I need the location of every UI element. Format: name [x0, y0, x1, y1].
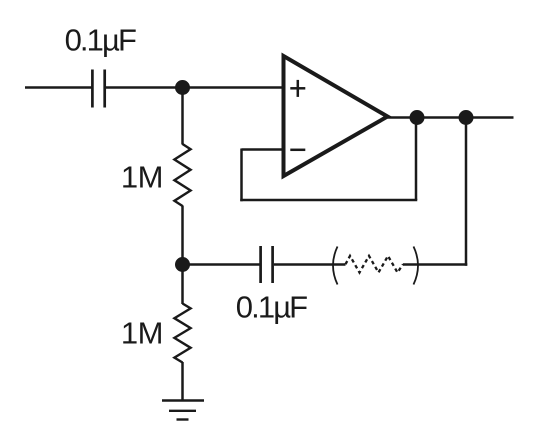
junction node D (output / branch tap): [459, 110, 474, 125]
op-amp U1 plus (noninverting) marking: [290, 80, 305, 97]
junction node A (input node): [175, 80, 190, 95]
op-amp U1 triangle: [284, 56, 388, 176]
wire op-amp inverting input: [242, 148, 284, 151]
optional resistor (dashed zigzag): [346, 256, 404, 273]
wire R1 to node B: [181, 206, 184, 265]
wire node D down to feedback branch: [465, 118, 468, 266]
junction node C (output / feedback tap): [410, 110, 425, 125]
wire R2 to ground: [181, 362, 184, 401]
resistor R1 1M (upper): [174, 144, 190, 206]
wire op-amp output: [388, 116, 514, 119]
wire node B to C2: [183, 263, 261, 266]
right parenthesis (optional component bracket): [414, 247, 419, 285]
op-amp U1 minus (inverting) marking: [290, 149, 305, 152]
wire optional resistor to node D vertical: [403, 263, 467, 266]
wire node B down to R2: [181, 265, 184, 305]
capacitor C1 0.1uF (input coupling): [92, 70, 104, 108]
wire C1 to op-amp noninverting input: [106, 86, 284, 89]
wire feedback left vertical: [240, 149, 243, 202]
wire feedback right vertical up to output: [415, 118, 418, 201]
capacitor C2 0.1uF (feedback branch): [261, 246, 273, 283]
svg-text:1M: 1M: [121, 316, 163, 351]
svg-text:0.1µF: 0.1µF: [65, 23, 136, 58]
svg-text:1M: 1M: [121, 160, 163, 195]
svg-text:0.1µF: 0.1µF: [236, 290, 307, 325]
junction node B (divider mid node): [175, 257, 190, 272]
resistor R2 1M (lower): [174, 304, 190, 363]
ground symbol: [162, 401, 204, 420]
wire feedback bottom horizontal: [240, 199, 417, 202]
wire C2 to optional resistor: [274, 263, 346, 266]
wire input (left lead into C1): [25, 86, 92, 89]
left parenthesis (optional component bracket): [333, 247, 338, 285]
wire node A down to R1: [181, 88, 184, 145]
